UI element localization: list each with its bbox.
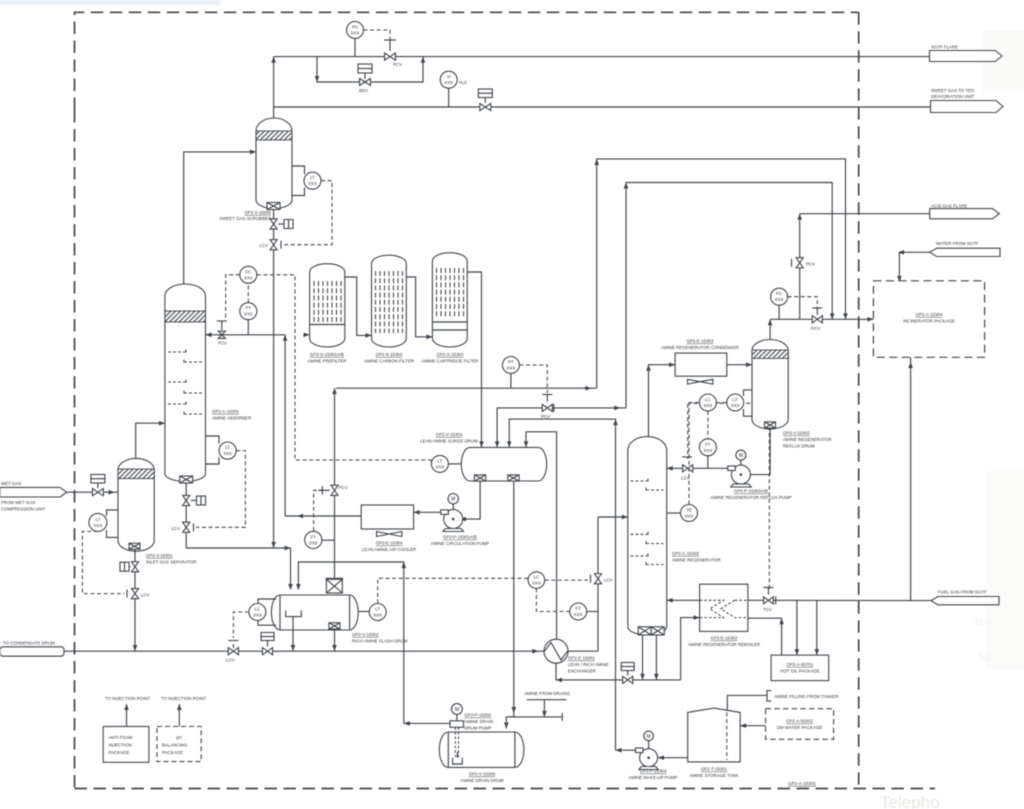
svg-text:GP2-S-15302: GP2-S-15302 [376,352,403,357]
svg-text:SWEET GAS TO TEG: SWEET GAS TO TEG [931,88,975,93]
svg-text:AMINE CARTRIDGE FILTER: AMINE CARTRIDGE FILTER [422,359,479,364]
svg-text:XXX: XXX [309,540,318,545]
svg-text:XXX: XXX [351,31,360,36]
svg-text:GP2-A-15304: GP2-A-15304 [916,312,943,317]
svg-text:XXX: XXX [244,312,253,317]
hot oil supply to reboiler [748,618,781,655]
pump P-15303A/B amine regenerator reflux pump [710,450,791,500]
absorber bottom valves [171,483,205,548]
flow instrument FT reflux [699,439,716,469]
flag SGTF FLARE [930,45,1003,62]
svg-text:XXX: XXX [223,451,232,456]
absorber bottom nozzle [180,476,193,483]
svg-text:PCV: PCV [541,414,550,419]
svg-text:GP2-P-15301A/B: GP2-P-15301A/B [443,535,477,540]
level instrument LT surge drum [431,455,461,472]
battery-limit dashed border GP2-A-15301 [75,12,859,110]
svg-text:LT: LT [225,445,230,450]
SGTF flare line [274,56,930,58]
acid gas header to incinerator [770,318,873,320]
flow instrument FT (regen feed) [570,603,598,620]
svg-text:TO INJECTION POINT: TO INJECTION POINT [105,696,150,701]
package anti foam injection [103,696,150,762]
svg-text:GP2-E-15304: GP2-E-15304 [376,541,403,546]
svg-text:EXCHANGER: EXCHANGER [568,669,596,674]
instrument PC (flare PCV controller) [347,22,391,57]
condensate / rich amine bottom line [64,650,598,652]
wire surge drum to drain drum [506,481,514,728]
svg-text:REFLUX DRUM: REFLUX DRUM [783,444,815,449]
condensate isolation valve with box [261,633,274,655]
wire L1 flash gas line [336,387,597,389]
cooler E-15304 lean amine air cooler [361,505,416,552]
svg-text:LT: LT [733,397,738,402]
svg-text:52: 52 [978,651,990,663]
svg-text:GP2-V-15302: GP2-V-15302 [352,632,379,637]
svg-text:AMINE REGENERATOR: AMINE REGENERATOR [672,558,721,563]
svg-text:DM WATER PACKAGE: DM WATER PACKAGE [777,725,823,730]
rich amine line to flash drum [186,548,290,590]
svg-text:AMINE REGENERATOR REFLUX PUMP: AMINE REGENERATOR REFLUX PUMP [710,495,791,500]
valve (sweet gas line) with box actuator [478,89,492,111]
level instrument LT absorber [196,436,245,527]
svg-text:TCV: TCV [763,607,772,612]
svg-text:PC: PC [352,25,358,30]
svg-text:BDV: BDV [359,88,368,93]
svg-text:PCV: PCV [339,485,348,490]
svg-text:GP2-V-15303: GP2-V-15303 [783,431,810,436]
svg-text:LEAN AMINE AIR COOLER: LEAN AMINE AIR COOLER [362,547,416,552]
flash drum mesh demister [325,578,343,593]
condensate LCV [226,641,238,663]
svg-text:XXX: XXX [704,448,713,453]
regenerator bottoms to header [642,635,644,680]
svg-text:HOT OIL PACKAGE: HOT OIL PACKAGE [780,669,820,674]
svg-text:RICH AMINE FLASH DRUM: RICH AMINE FLASH DRUM [352,639,408,644]
svg-text:FUEL GAS FROM SGTF: FUEL GAS FROM SGTF [938,590,987,595]
svg-text:LT: LT [375,607,380,612]
svg-text:LCV: LCV [259,243,268,248]
svg-text:XXX: XXX [436,464,445,469]
wire lean return from header into drum [509,419,615,680]
flag FUEL GAS FROM SGTF [931,590,999,605]
svg-text:GP2-A-15301: GP2-A-15301 [788,781,817,786]
flash drum bottom outlet [334,629,336,651]
svg-text:XXX: XXX [704,403,713,408]
sweet gas to TEG line [274,106,931,108]
lean amine feed line to absorber [206,321,286,346]
absorber trays [168,350,202,417]
flag ACID GAS FLARE [800,204,1000,219]
separator drain valves [120,549,150,651]
filter S-15301A/B amine prefilter [308,264,347,364]
svg-text:GP2-T-15301: GP2-T-15301 [701,767,728,772]
exchanger E-15301 lean/rich amine exchanger [532,639,609,673]
svg-text:AMINE REGENERATOR CONDENSER: AMINE REGENERATOR CONDENSER [661,345,739,350]
reflux drum to pump [751,428,771,475]
acid gas flare branch with PCV [792,214,816,320]
svg-text:INCINERATOR PACKAGE: INCINERATOR PACKAGE [903,319,955,324]
svg-text:LCV: LCV [604,578,613,583]
level instrument LC flash drum [233,599,276,638]
svg-text:ts c: ts c [975,616,993,628]
wet gas line [67,491,118,493]
tank T-15301 amine storage tank [688,708,740,778]
package pH balancing [157,696,206,762]
overhead header upper (from L1) [597,159,846,388]
BDV bypass line [317,57,423,82]
svg-text:INLET GAS SEPARATOR: INLET GAS SEPARATOR [146,560,196,565]
overhead header lower (from L2) [626,183,832,408]
column C-15301 amine absorber [165,284,206,482]
svg-text:XXX: XXX [775,297,784,302]
valve BDV with actuator [358,64,372,93]
svg-text:XXX: XXX [444,80,453,85]
svg-text:LEAN / RICH AMINE: LEAN / RICH AMINE [568,662,609,667]
svg-text:AMINE REGENERATOR REBOILER: AMINE REGENERATOR REBOILER [688,642,760,647]
svg-text:LCV: LCV [681,476,690,481]
scrubber drain valves [259,210,293,549]
svg-text:FCV: FCV [218,341,227,346]
wire prefilter to carbon filter [345,277,372,335]
svg-text:LT: LT [95,517,100,522]
vessel V-15301 inlet gas separator [118,458,154,551]
svg-text:GP2-P-15303A/B: GP2-P-15303A/B [734,489,768,494]
svg-text:FC: FC [245,269,251,274]
level instrument LT flash drum [358,578,528,620]
flag WET GAS inlet [0,481,67,512]
svg-text:SGTF FLARE: SGTF FLARE [931,45,958,50]
fuel gas / hot oil line with TCV [748,588,931,612]
svg-text:GP2-V-15301: GP2-V-15301 [146,553,173,558]
feed arrow into prefilter [304,333,310,338]
arrow on cooler outlet line [297,514,303,519]
wire cartridge outlet to surge drum [467,272,481,447]
svg-text:DEHYDRATION UNIT: DEHYDRATION UNIT [931,94,974,99]
regenerator overhead to condenser [649,365,676,437]
filter S-15302 amine carbon filter [364,255,414,363]
package GP2-A-50701 hot oil package [771,655,829,681]
amine from drains collector [506,691,570,721]
svg-text:DRUM PUMP: DRUM PUMP [464,726,491,731]
svg-text:AI: AI [447,74,451,79]
vessel V-15303 amine regenerator reflux drum [752,339,832,448]
svg-text:PCV: PCV [806,262,815,267]
svg-text:AMINE REGENERATOR: AMINE REGENERATOR [783,437,832,442]
svg-text:XXX: XXX [308,181,317,186]
svg-text:LC: LC [255,607,261,612]
svg-text:GP2-E-15302: GP2-E-15302 [711,636,738,641]
wire surge drum to circulation pump [466,481,480,519]
svg-text:LCV: LCV [226,658,235,663]
svg-text:ANTI FOAM: ANTI FOAM [109,735,133,740]
bottoms header from exchanger [556,663,681,684]
svg-text:PT: PT [508,360,514,365]
svg-text:PACKAGE: PACKAGE [162,750,183,755]
svg-text:AMINE CIRCULATION PUMP: AMINE CIRCULATION PUMP [431,541,490,546]
svg-text:XXX: XXX [574,612,583,617]
svg-text:GP2-A-50701: GP2-A-50701 [786,662,813,667]
svg-text:FT: FT [576,606,582,611]
svg-text:M: M [451,497,455,503]
level controller LC (regen feed) [528,572,588,612]
svg-text:GP2-C-15302: GP2-C-15302 [672,551,700,556]
svg-text:AMINE DRAIN: AMINE DRAIN [464,719,493,724]
svg-text:LEAN AMINE SURGE DRUM: LEAN AMINE SURGE DRUM [420,439,478,444]
svg-text:GP2-C-15301: GP2-C-15301 [212,409,240,414]
vessel V-15306 amine drain drum [439,732,524,783]
incinerator fuel gas riser [910,357,912,600]
svg-text:PC: PC [776,291,782,296]
reflux return line with LCV [667,457,732,481]
svg-text:LC: LC [534,575,540,580]
instrument line LT surge to FC dashed [430,460,432,464]
pump P-15302 amine drain drum pump [404,704,493,764]
svg-text:pH: pH [176,735,182,740]
flow tap on flash gas riser [305,531,335,548]
amine filling from tanker [727,691,838,711]
svg-text:GP2-P-15302: GP2-P-15302 [464,713,491,718]
control valve PCV (flare) [384,40,402,67]
flag TO CONDENSATE DRUM [0,641,64,657]
svg-text:AMINE FROM DRAINS: AMINE FROM DRAINS [524,691,570,696]
svg-text:COMPRESSION UNIT: COMPRESSION UNIT [1,507,46,512]
svg-text:GP2-S-15303: GP2-S-15303 [437,352,464,357]
weir compartment drain [292,617,294,652]
wire L2 PCV vapour line [495,395,626,448]
svg-text:M: M [647,734,651,740]
svg-text:XXX: XXX [685,514,694,519]
level instrument LT separator [82,510,124,594]
svg-text:AMINE PREFILTER: AMINE PREFILTER [308,359,347,364]
svg-text:GP2-E-15303: GP2-E-15303 [687,339,714,344]
svg-text:WATER FROM SGTF: WATER FROM SGTF [936,241,979,246]
svg-text:AMINE FILLING FROM TANKER: AMINE FILLING FROM TANKER [774,694,839,699]
svg-text:TO INJECTION POINT: TO INJECTION POINT [161,696,206,701]
svg-text:LCV: LCV [141,593,150,598]
svg-text:GP2-V-15306: GP2-V-15306 [469,772,496,777]
svg-text:AMINE ABSORBER: AMINE ABSORBER [212,416,251,421]
svg-text:LT: LT [437,458,442,463]
level controller LC reflux drum [688,394,727,459]
level instrument LT scrubber [283,166,332,245]
svg-text:TO CONDENSATE DRUM: TO CONDENSATE DRUM [3,641,55,646]
analyzer AI H2S [440,71,467,107]
regenerator feed riser with LCV [591,515,628,652]
package GP2-A-15304 incinerator package [873,281,984,358]
svg-text:XXX: XXX [244,275,253,280]
pressure controller PC acid gas [771,288,818,319]
flash gas riser with PCV [314,388,348,578]
svg-text:PACKAGE: PACKAGE [109,750,130,755]
pump P-15304 amine make-up pump [616,680,688,780]
flag SWEET GAS TO TEG DEHYDRATION UNIT [931,88,1004,113]
drops into hot oil package [796,601,798,656]
pressure instrument PT (flash gas) [502,357,547,394]
wire absorber overhead to scrubber [184,152,250,285]
vessel V-15305 sweet gas scrubber [256,118,292,210]
column C-15302 amine regenerator [628,437,721,635]
vessel V-15304 lean amine surge drum [420,432,546,481]
filter S-15303 amine cartridge filter [422,253,479,364]
drain pump return riser [298,562,403,723]
svg-text:GP2-A-50402: GP2-A-50402 [786,719,813,724]
svg-text:LCV: LCV [171,526,180,531]
control valve PCV on acid header [811,308,822,331]
svg-text:Telepho: Telepho [880,793,940,809]
svg-text:GP2-E-15301: GP2-E-15301 [568,656,595,661]
scrubber overhead riser [273,57,275,119]
svg-text:FROM WET GAS: FROM WET GAS [1,500,35,505]
svg-text:GP2-P-15304: GP2-P-15304 [640,769,667,774]
svg-text:WET GAS: WET GAS [1,481,21,486]
svg-text:XXX: XXX [532,581,541,586]
svg-text:BALANCING: BALANCING [162,743,188,748]
svg-text:LC: LC [705,397,711,402]
svg-text:XXX: XXX [253,613,262,618]
svg-text:XXX: XXX [731,403,740,408]
reflux drum vent riser [769,319,771,340]
package GP2-A-50402 DM water package [740,709,834,740]
lean amine riser from cooler [284,335,286,516]
condenser outlet to reflux drum [727,364,752,366]
temperature instrument TE [667,403,770,590]
wire lean from exchanger into drum [526,432,557,639]
svg-text:AMINE MAKE-UP PUMP: AMINE MAKE-UP PUMP [629,775,678,780]
svg-text:M: M [455,707,459,713]
wire cooler outlet to absorber riser [285,515,361,517]
level instrument LT reflux drum [727,390,752,416]
svg-text:H₂S: H₂S [459,80,467,85]
svg-text:GP2-V-15304: GP2-V-15304 [436,432,463,437]
reboiler feed from bottoms header [681,618,700,680]
pump P-15301A/B amine circulation pump [414,494,490,547]
svg-text:FT: FT [705,442,711,447]
condenser E-15303 [661,339,739,385]
svg-text:INJECTION: INJECTION [109,743,132,748]
svg-text:XXX: XXX [94,523,103,528]
reboiler return to column [667,599,700,601]
flag WATER FROM SGTF [897,241,1000,282]
svg-text:TE: TE [686,508,692,513]
vessel V-15302 rich amine flash drum [271,595,407,644]
svg-text:PCV: PCV [393,62,402,67]
svg-text:SWEET GAS SCRUBBER: SWEET GAS SCRUBBER [219,216,271,221]
svg-text:GP2-S-15301A/B: GP2-S-15301A/B [310,352,344,357]
svg-text:ACID GAS FLARE: ACID GAS FLARE [931,204,967,209]
svg-text:GP2-V-15305: GP2-V-15305 [244,210,271,215]
inlet valve with box actuator [91,475,105,496]
wire carbon to cartridge filter [406,277,432,337]
reboiler E-15302 amine regenerator reboiler [688,584,760,647]
regenerator trays [631,479,664,568]
flow instruments FT / FC [226,266,432,460]
svg-text:XXX: XXX [373,613,382,618]
svg-text:M: M [739,453,743,459]
svg-text:LT: LT [310,175,315,180]
svg-text:AMINE CARBON FILTER: AMINE CARBON FILTER [364,359,414,364]
svg-text:PCV: PCV [811,326,820,331]
separator gas outlet to absorber [136,423,165,459]
svg-text:FT: FT [246,306,252,311]
svg-text:AMINE DRAIN DRUM: AMINE DRAIN DRUM [460,778,504,783]
svg-text:FT: FT [311,534,317,539]
svg-text:XXX: XXX [507,366,516,371]
svg-text:AMINE STORAGE TANK: AMINE STORAGE TANK [689,773,738,778]
